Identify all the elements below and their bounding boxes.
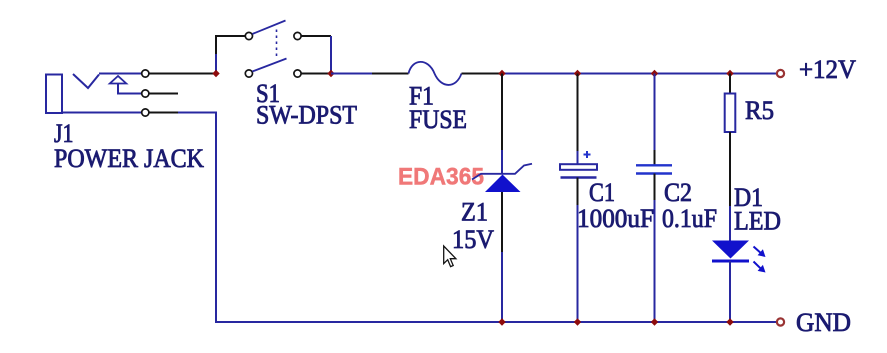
node junction right of S1 (327, 70, 334, 77)
wire down to junction blue (330, 36, 332, 74)
wire J1 tip to pin 1 (99, 73, 142, 75)
wire C2 branch upper blue part (654, 74, 656, 151)
svg-text:C1: C1 (589, 178, 615, 207)
pin 3 of J1 (142, 109, 149, 116)
zener Z1 triangle (485, 175, 521, 193)
svg-text:SW-DPST: SW-DPST (256, 101, 357, 130)
pin 2 of J1 (142, 90, 149, 97)
svg-text:1000uF: 1000uF (577, 204, 654, 233)
terminal GND (777, 318, 784, 325)
svg-text:GND: GND (796, 308, 851, 337)
wire junction up to switch upper pole (216, 36, 245, 54)
capacitor C2 top plate (636, 164, 672, 166)
connector J1 barrel (46, 75, 62, 114)
zener Z1 cathode bar (472, 164, 532, 180)
wire C1 branch lower blue part (577, 205, 579, 322)
wire C1 branch upper black part (577, 74, 579, 152)
wire Z1 branch upper black part (501, 74, 503, 151)
svg-text:POWER JACK: POWER JACK (54, 144, 204, 173)
LED D1 triangle (712, 241, 749, 259)
wire junction to fuse blue part (331, 73, 372, 75)
svg-text:LED: LED (734, 207, 781, 236)
wire R5 to D1 black part (729, 132, 731, 206)
wire R5 to D1 blue part (729, 206, 731, 241)
wire switch lower right to junction (301, 73, 331, 75)
terminal +12V (777, 70, 784, 77)
wire junction up blue part (215, 54, 217, 74)
connector J1 tip contact arrow (110, 76, 127, 84)
node junction C2 bottom (651, 318, 658, 325)
connector J1 spring contact V (73, 74, 99, 88)
switch S1 upper pole lever (252, 21, 285, 35)
node junction D1 bottom (726, 318, 733, 325)
wire pin1 to switch junction (149, 73, 216, 75)
svg-text:R5: R5 (745, 96, 774, 125)
wire C2 branch lower blue part (654, 200, 656, 322)
wire C1 branch lower black pin (577, 178, 579, 206)
svg-text:C2: C2 (664, 178, 692, 207)
wire J1 arrow stem to pin 2 (118, 84, 142, 94)
node junction C1 top (574, 70, 581, 77)
wire to fuse black part (372, 73, 409, 75)
wire switch upper right (301, 35, 331, 37)
pin 1 of J1 (142, 70, 149, 77)
wire ground return and bottom rail (178, 113, 776, 323)
capacitor C1 bottom plate (561, 176, 597, 178)
wire Z1 branch lower black part (501, 192, 503, 252)
fuse F1 (409, 62, 462, 85)
node junction left of S1 (212, 70, 219, 77)
wire J1 sleeve to pin 3 (62, 112, 142, 114)
svg-text:0.1uF: 0.1uF (662, 204, 717, 233)
resistor R5 (725, 94, 736, 133)
svg-text:FUSE: FUSE (409, 105, 467, 134)
switch S1 link dashed (276, 30, 278, 59)
node junction Z1 bottom (498, 318, 505, 325)
switch S1 lower pole left contact (245, 70, 252, 77)
svg-text:Z1: Z1 (461, 198, 488, 227)
switch S1 lower pole right contact (294, 70, 301, 77)
wire +12V top rail (502, 73, 776, 75)
LED D1 light arrow 2 (754, 262, 766, 273)
wire Z1 branch lower blue part (501, 252, 503, 322)
capacitor C1 top plate (560, 164, 597, 170)
capacitor C2 bottom plate (636, 172, 672, 174)
svg-text:15V: 15V (452, 225, 494, 254)
svg-text:EDA365: EDA365 (398, 164, 484, 191)
capacitor C1 plus sign (584, 151, 591, 158)
wire C2 branch upper black pin (654, 150, 656, 165)
mouse cursor (444, 246, 456, 267)
wire C2 branch lower black pin (654, 174, 656, 201)
node junction C1 bottom (574, 318, 581, 325)
node junction R5 top (726, 70, 733, 77)
LED D1 cathode bar (712, 260, 749, 263)
LED D1 light arrow 1 (754, 247, 766, 258)
wire C1 branch upper blue pin (577, 151, 579, 164)
wire fuse to first junction (462, 73, 503, 75)
switch S1 upper pole left contact (245, 32, 252, 39)
wire pin2 stub (149, 93, 178, 95)
wire R5 branch upper (729, 74, 731, 94)
svg-text:+12V: +12V (799, 55, 856, 84)
node junction C2 top (651, 70, 658, 77)
node junction Z1 top (498, 70, 505, 77)
wire Z1 branch upper blue part (501, 150, 503, 174)
switch S1 lower pole lever (252, 59, 286, 72)
wire pin3 stub (149, 112, 178, 114)
wire D1 to ground rail (729, 261, 731, 322)
switch S1 upper pole right contact (294, 32, 301, 39)
